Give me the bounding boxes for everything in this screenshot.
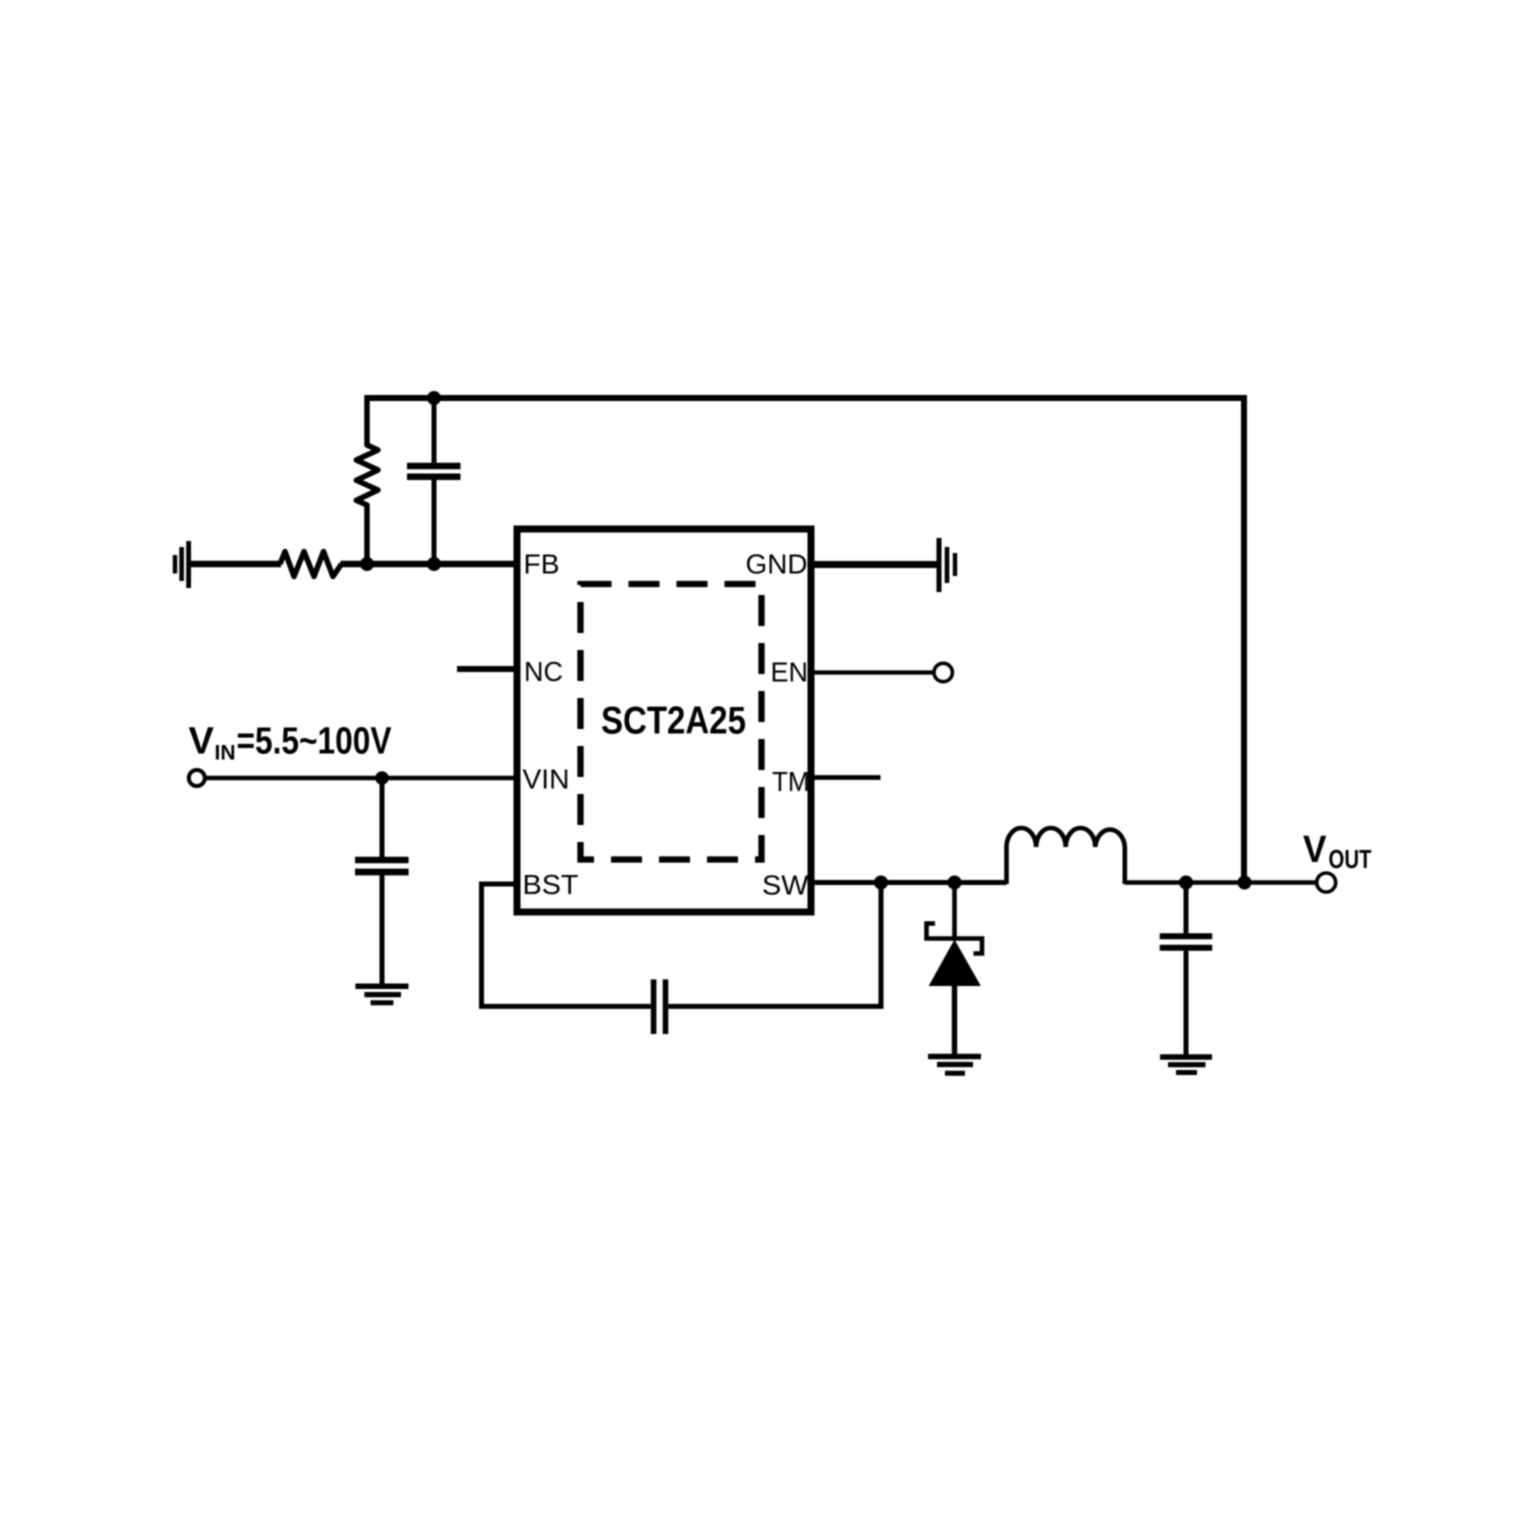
ground: output capacitor ground symbol: [1160, 1057, 1212, 1073]
wire: NC pin stub: [457, 666, 517, 672]
capacitor C3 plates: [1160, 933, 1213, 939]
net label VIN=5.5~100V: [189, 721, 393, 765]
svg-text:VIN: VIN: [523, 764, 570, 795]
node: junction dot FB / R2: [360, 557, 374, 571]
node: junction dot VOUT / feedback rail: [1238, 876, 1252, 890]
capacitor C2 plates: [355, 857, 409, 864]
terminal: EN open circle: [934, 663, 952, 681]
terminal: VOUT open circle: [1317, 873, 1336, 892]
diode D1 lower lead: [952, 986, 957, 1055]
ground: input capacitor ground symbol: [355, 986, 408, 1003]
node: junction dot VIN / C2: [375, 771, 389, 785]
diode D1 cathode bar with schottky hooks: [927, 924, 983, 954]
wire: EN pin: [811, 670, 933, 674]
wire: SW pin to inductor: [811, 880, 1007, 885]
capacitor C2 lower lead: [380, 875, 385, 984]
ground: diode ground symbol: [928, 1057, 981, 1074]
diode D1 anode triangle: [930, 941, 981, 986]
inductor L1: [1007, 828, 1125, 884]
wire: VIN net: [206, 776, 517, 780]
wire: BST pin loop: [482, 884, 651, 1006]
capacitor C1 lower lead: [432, 480, 437, 564]
diode D1 (schottky) upper lead: [952, 883, 957, 939]
resistor R2 (FB high-side, vertical zigzag): [356, 395, 378, 564]
svg-text:=5.5~100V: =5.5~100V: [237, 721, 393, 763]
capacitor C1 plates: [407, 463, 461, 470]
svg-text:SW: SW: [762, 870, 809, 901]
svg-text:BST: BST: [523, 869, 579, 900]
node: junction dot FB / C1: [427, 557, 441, 571]
svg-text:NC: NC: [524, 656, 563, 687]
capacitor C1 (feed-forward) upper lead: [432, 398, 437, 463]
wire: TM pin stub: [811, 775, 881, 780]
wire: BST capacitor to SW: [668, 884, 881, 1006]
wire: FB net horizontal (R1 to FB pin): [341, 561, 518, 568]
wire: FB net horizontal (ground to R1): [190, 561, 281, 568]
wire: GND pin to ground: [811, 561, 937, 568]
node: junction dot VOUT / C3: [1179, 876, 1193, 890]
capacitor C4 (bootstrap) plates: [651, 979, 657, 1034]
terminal: VIN input open circle: [189, 770, 205, 786]
node: junction dot SW / D1: [948, 876, 962, 890]
capacitor C3 lower lead: [1184, 951, 1189, 1055]
svg-text:EN: EN: [771, 657, 809, 688]
ground: FB low-side ground symbol (left, bars vertical): [175, 541, 189, 588]
resistor R1 (FB low-side, horizontal zigzag): [280, 552, 342, 577]
svg-text:TM: TM: [772, 766, 810, 797]
ground: GND pin ground symbol (right, bars vertical): [939, 538, 955, 592]
capacitor C2 (input) upper lead: [380, 778, 385, 857]
capacitor C3 (output) upper lead: [1184, 883, 1189, 934]
node: junction dot top rail / C1: [427, 391, 441, 405]
wire: VOUT net: [1125, 880, 1316, 885]
wire: VOUT feedback top rail: [367, 398, 1244, 883]
svg-text:IN: IN: [215, 742, 236, 765]
IC U1 SCT2A25 body: [517, 529, 811, 912]
svg-text:FB: FB: [524, 549, 560, 580]
svg-text:SCT2A25: SCT2A25: [601, 700, 746, 743]
svg-text:V: V: [189, 721, 215, 763]
svg-text:OUT: OUT: [1329, 844, 1372, 874]
net label VOUT: [1303, 829, 1372, 874]
node: junction dot SW / BST return: [874, 876, 888, 890]
svg-text:V: V: [1303, 829, 1327, 871]
svg-text:GND: GND: [746, 549, 808, 580]
IC U1 internal dashed outline: [581, 584, 762, 860]
